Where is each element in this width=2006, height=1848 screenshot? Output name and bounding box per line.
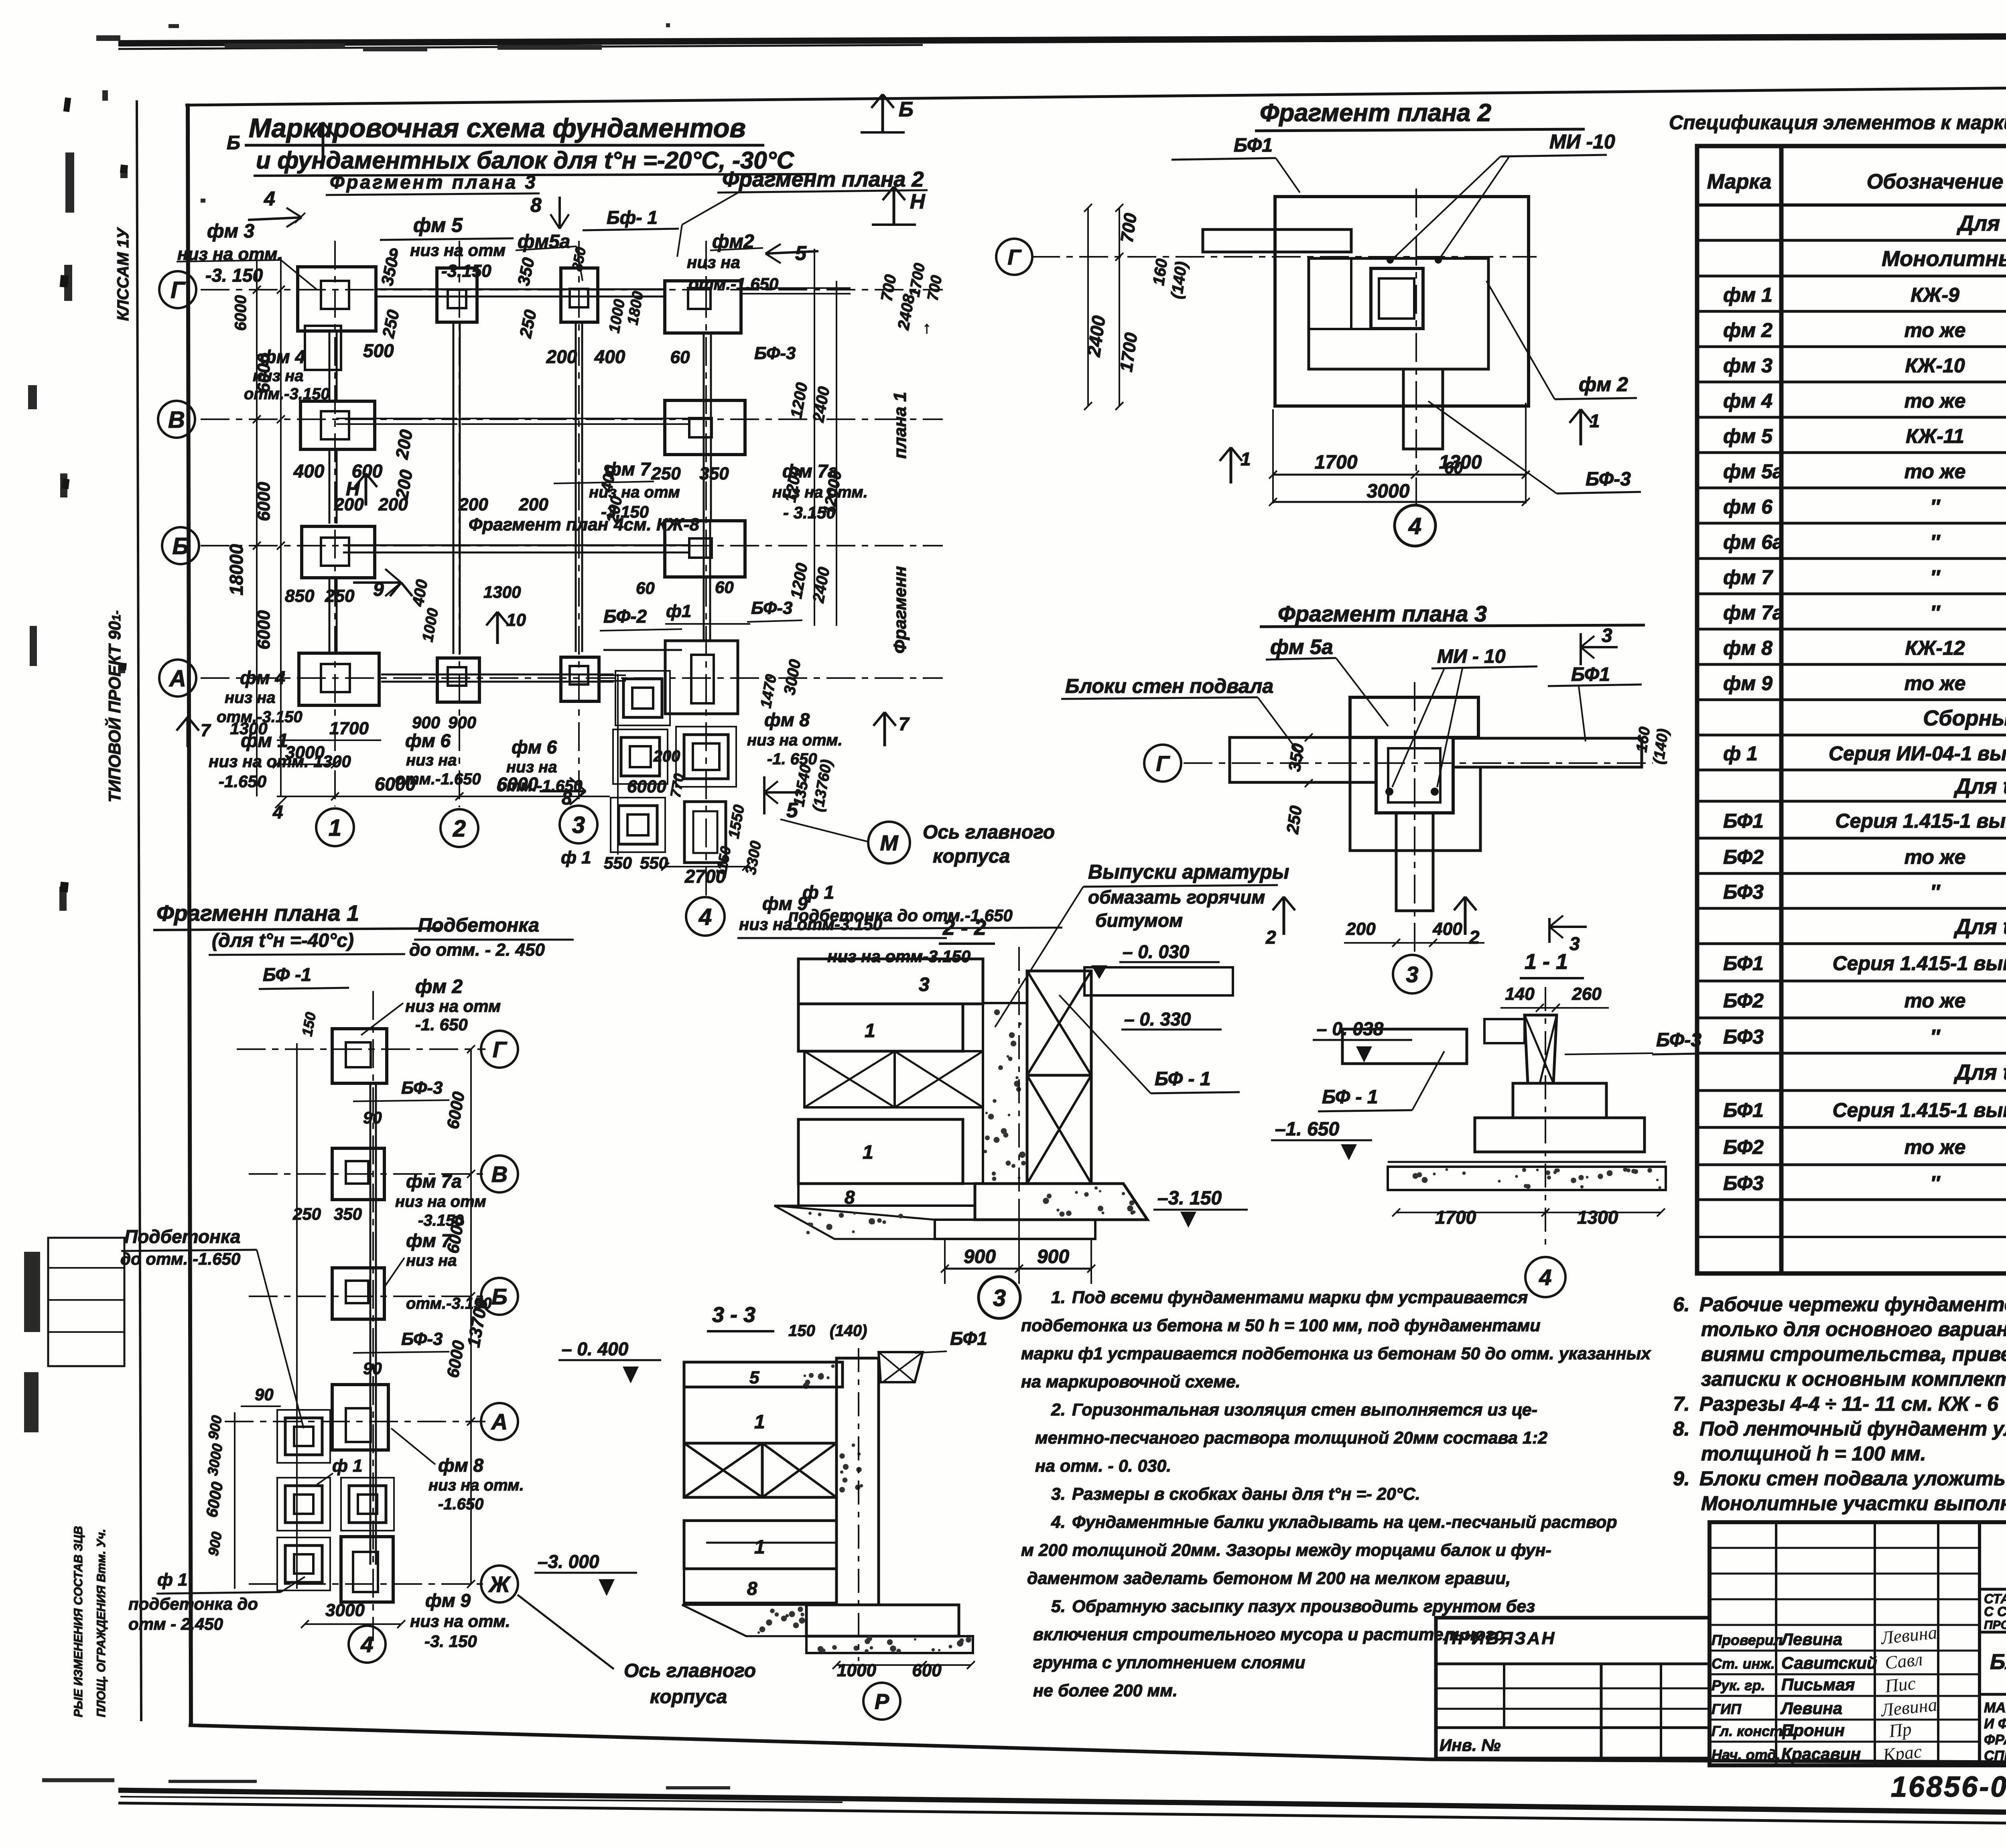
- fp1 ф1 square 4: [349, 1486, 386, 1523]
- svg-text:Монолитные участки выполня: Монолитные участки выполняются из бетона…: [1701, 1492, 2006, 1515]
- svg-text:350: 350: [1285, 742, 1307, 773]
- svg-text:Г: Г: [493, 1037, 508, 1062]
- svg-text:ПРИВЯЗАН: ПРИВЯЗАН: [1444, 1629, 1556, 1648]
- svg-text:Марка: Марка: [1707, 170, 1772, 193]
- svg-text:Серия 1.415-1 вып. 1: Серия 1.415-1 вып. 1: [1833, 952, 2006, 975]
- cluster beam БФ-2 line: [603, 649, 682, 651]
- svg-text:1: 1: [1590, 410, 1600, 431]
- svg-text:БФ1: БФ1: [1571, 664, 1610, 685]
- svg-text:3: 3: [919, 974, 930, 995]
- s11 bottom slab speckled: [1388, 1167, 1666, 1190]
- axis circle Б: [162, 527, 199, 564]
- svg-text:фм 7: фм 7: [1723, 566, 1773, 589]
- svg-text:отм.-1.650: отм.-1.650: [395, 770, 481, 788]
- svg-text:ТИПОВОЙ ПРОЕКТ 901-: ТИПОВОЙ ПРОЕКТ 901-: [104, 610, 124, 802]
- axis circle 1: [316, 808, 354, 846]
- svg-text:Для t°н =-30°C: Для t°н =-30°C: [1957, 211, 2006, 236]
- s11 circle 4: [1525, 1257, 1565, 1297]
- fp2 dim vertical 2400 1700 700: [1087, 208, 1089, 406]
- cluster rect E: [684, 802, 726, 863]
- svg-text:КЛССАМ 1У: КЛССАМ 1У: [114, 227, 132, 321]
- spec row фм 9: [1697, 672, 2006, 700]
- svg-text:″: ″: [1930, 881, 1941, 903]
- svg-text:″: ″: [1930, 1172, 1941, 1194]
- axis line 2 vertical: [459, 241, 460, 807]
- svg-text:8: 8: [845, 1187, 855, 1208]
- svg-text:низ на: низ на: [687, 253, 740, 272]
- left margin small boxes: [48, 1238, 124, 1366]
- svg-text:2: 2: [453, 816, 466, 842]
- s11 step 1: [1513, 1083, 1606, 1118]
- svg-text:БФ1: БФ1: [1723, 810, 1764, 832]
- svg-text:Письмая: Письмая: [1781, 1675, 1855, 1694]
- svg-text:фм 9: фм 9: [425, 1590, 471, 1611]
- svg-text:виями строительства, приведе: виями строительства, приведенными в разд…: [1701, 1343, 2006, 1365]
- s33 top bar 5: [684, 1362, 843, 1387]
- svg-text:Крас: Крас: [1882, 1741, 1923, 1765]
- svg-text:Разрезы 4-4 ÷ 11- 11 см. КЖ: Разрезы 4-4 ÷ 11- 11 см. КЖ - 6: [1699, 1393, 1999, 1415]
- svg-text:Рабочие чертежи фундаментов: Рабочие чертежи фундаментов под колонны …: [1699, 1293, 2006, 1316]
- svg-text:Б: Б: [491, 1284, 508, 1309]
- fp1 circle В: [481, 1156, 518, 1192]
- spec row БФ3: [1697, 1172, 2006, 1200]
- svg-text:Н: Н: [910, 190, 926, 213]
- beam along В left part: [336, 423, 457, 425]
- svg-text:отм.-1.650: отм.-1.650: [688, 274, 778, 293]
- svg-text:низ на: низ на: [253, 367, 304, 385]
- svg-text:3: 3: [993, 1285, 1006, 1311]
- svg-text:-3.150: -3.150: [441, 261, 491, 281]
- svg-text:БФ1: БФ1: [1723, 952, 1764, 975]
- svg-text:7: 7: [899, 713, 910, 734]
- s33 wall vertical: [837, 1358, 879, 1605]
- fp1 circle А: [481, 1403, 518, 1440]
- svg-text:Фрагменн плана 1: Фрагменн плана 1: [156, 900, 359, 926]
- svg-text:фм 6а: фм 6а: [1723, 531, 1784, 553]
- svg-text:Б: Б: [899, 98, 914, 121]
- beam along Г: [375, 296, 666, 298]
- svg-text:фм 5: фм 5: [413, 214, 463, 236]
- fp2 mark 1 left: [1230, 447, 1232, 483]
- svg-text:битумом: битумом: [1095, 910, 1183, 931]
- svg-text:260: 260: [1572, 984, 1602, 1004]
- svg-text:900: 900: [1037, 1246, 1069, 1267]
- footing row Б axis4 фм7: [665, 521, 745, 577]
- svg-text:ФРАГМЕНТЫ ПЛАНА №1 ÷ №3.: ФРАГМЕНТЫ ПЛАНА №1 ÷ №3.: [1984, 1732, 2006, 1748]
- svg-text:фм 4: фм 4: [240, 667, 285, 688]
- spec row фм 1: [1697, 284, 2006, 311]
- spec table column lines: [1779, 146, 1784, 1273]
- frame top line: [185, 83, 2006, 105]
- svg-text:6000: 6000: [254, 482, 274, 521]
- svg-text:Б: Б: [227, 132, 240, 154]
- s33 footing: [806, 1605, 959, 1636]
- s22 center line: [1018, 947, 1020, 1268]
- svg-text:1700: 1700: [329, 719, 369, 738]
- s22 top slab 3: [798, 959, 983, 1004]
- svg-text:ф 1: ф 1: [157, 1570, 188, 1590]
- s22 dims 900 900: [945, 1268, 1091, 1270]
- spec row БФ3: [1697, 1026, 2006, 1053]
- svg-text:Ось главного: Ось главного: [923, 822, 1055, 843]
- svg-text:– 0. 030: – 0. 030: [1123, 941, 1190, 962]
- svg-text:-3.150: -3.150: [418, 1212, 463, 1229]
- fp3 mark 2 left: [1283, 897, 1285, 935]
- svg-text:до отм. - 2. 450: до отм. - 2. 450: [409, 940, 545, 960]
- fp2 mark 1 right: [1580, 409, 1582, 445]
- svg-text:ПЛОЩ. ОГРАЖДЕНИЯ Втм. Уч.: ПЛОЩ. ОГРАЖДЕНИЯ Втм. Уч.: [95, 1529, 108, 1717]
- svg-text:1.: 1.: [1051, 1288, 1066, 1307]
- svg-text:Фрагмент план: Фрагмент план: [469, 515, 608, 534]
- s33 xbox row: [684, 1443, 762, 1497]
- svg-text:А: А: [169, 666, 186, 692]
- svg-text:низ на: низ на: [225, 689, 276, 707]
- svg-text:Обратную засыпку пазух пр: Обратную засыпку пазух производить грунт…: [1072, 1597, 1535, 1616]
- svg-text:Монолитные конструкции.: Монолитные конструкции.: [1882, 247, 2006, 271]
- svg-text:БФ-3: БФ-3: [1586, 469, 1631, 490]
- svg-text:4: 4: [1539, 1265, 1551, 1290]
- svg-text:Блок контактной камеры.: Блок контактной камеры.: [1990, 1650, 2006, 1674]
- svg-text:1000: 1000: [837, 1661, 876, 1680]
- svg-text:Под ленточный фундамент ул: Под ленточный фундамент уложить песчаную…: [1699, 1417, 2006, 1440]
- s33 bottom slab: [806, 1636, 973, 1653]
- svg-text:(для t°н =-40°с): (для t°н =-40°с): [212, 930, 354, 951]
- spec table outer: [1697, 146, 2006, 1273]
- svg-text:низ на: низ на: [406, 1252, 457, 1269]
- axis circle 2: [441, 809, 478, 847]
- svg-text:8: 8: [747, 1578, 757, 1599]
- s22 circle 3: [979, 1277, 1020, 1318]
- svg-text:Г: Г: [1007, 245, 1022, 269]
- svg-text:60: 60: [636, 579, 655, 597]
- s11 center axis: [1545, 987, 1546, 1252]
- svg-text:КЖ-12: КЖ-12: [1905, 637, 1965, 659]
- svg-text:то же: то же: [1904, 672, 1966, 695]
- svg-text:– 0. 400: – 0. 400: [562, 1338, 629, 1359]
- svg-text:БФ-3: БФ-3: [754, 343, 796, 363]
- plan mark Б right: [861, 131, 905, 134]
- svg-text:Левина: Левина: [1780, 1699, 1842, 1718]
- svg-text:1: 1: [863, 1142, 873, 1163]
- axis line 3 vertical: [578, 241, 580, 806]
- cluster ф1 square D: [619, 806, 657, 844]
- svg-text:низ на отм. 1300: низ на отм. 1300: [209, 752, 351, 771]
- svg-text:Для t°н =- 30°C: Для t°н =- 30°C: [1953, 915, 2006, 939]
- footing row В axis1 фм4: [300, 401, 375, 449]
- svg-text:200: 200: [653, 747, 680, 765]
- signature table: [1710, 1522, 1980, 1765]
- svg-text:ф 1: ф 1: [1723, 742, 1758, 765]
- fp3 dots МН-10: [1385, 788, 1393, 796]
- svg-text:Серия ИИ-04-1 вып. 7: Серия ИИ-04-1 вып. 7: [1829, 742, 2006, 765]
- s22 bottom slabs: [935, 1220, 1095, 1239]
- frame left border: [188, 104, 191, 1725]
- cluster ф1 square B: [621, 737, 660, 776]
- svg-text:плана 1: плана 1: [890, 392, 910, 459]
- spec row фм 5: [1697, 425, 2006, 453]
- svg-text:1300: 1300: [1577, 1207, 1618, 1228]
- svg-text:Проверил: Проверил: [1712, 1632, 1783, 1648]
- svg-text:Спецификация элементов к марки: Спецификация элементов к маркировочной с…: [1669, 112, 2006, 134]
- svg-text:1 - 1: 1 - 1: [1525, 950, 1568, 974]
- svg-text:Размеры в скобках даны дл: Размеры в скобках даны для t°н =- 20°С.: [1072, 1484, 1420, 1504]
- cluster mark 7 right: [883, 712, 886, 746]
- svg-text:низ на отм.: низ на отм.: [428, 1476, 524, 1494]
- svg-text:отм - 2.450: отм - 2.450: [128, 1614, 223, 1633]
- svg-text:фм 8: фм 8: [438, 1455, 484, 1476]
- svg-text:фм 6: фм 6: [1723, 496, 1773, 518]
- svg-text:1300: 1300: [483, 583, 521, 601]
- fp3 mark 2 right: [1464, 897, 1467, 935]
- svg-text:низ на отм-3.150: низ на отм-3.150: [827, 947, 971, 966]
- svg-text:С СОДЕРЖАНИЕМ ВЗВЕШЕННЫХ ВЕЩ: С СОДЕРЖАНИЕМ ВЗВЕШЕННЫХ ВЕЩЕСТВ ДО 2500…: [1984, 1604, 2006, 1619]
- svg-text:КЖ-9: КЖ-9: [1911, 284, 1959, 306]
- svg-text:250: 250: [1283, 804, 1305, 835]
- svg-text:фм 2: фм 2: [415, 976, 463, 997]
- svg-text:Фрагмент плана 3: Фрагмент плана 3: [1278, 601, 1487, 626]
- svg-text:фм 6: фм 6: [405, 730, 451, 751]
- svg-text:РЫЕ ИЗМЕНЕНИЯ СОСТАВ ЗЦВ: РЫЕ ИЗМЕНЕНИЯ СОСТАВ ЗЦВ: [72, 1526, 85, 1717]
- footing row Г axis4 фм2: [665, 281, 741, 333]
- svg-text:фм 8: фм 8: [764, 709, 810, 730]
- svg-text:″: ″: [1930, 601, 1941, 624]
- svg-text:3: 3: [572, 812, 585, 838]
- fp3 top block: [1350, 697, 1478, 737]
- svg-text:200: 200: [518, 495, 548, 514]
- svg-text:2: 2: [1265, 927, 1276, 948]
- s33 center line: [858, 1348, 859, 1661]
- svg-text:–3. 000: –3. 000: [538, 1551, 599, 1572]
- svg-text:6000: 6000: [627, 777, 666, 796]
- svg-text:4: 4: [698, 904, 712, 930]
- spec section row: [1697, 911, 2006, 944]
- svg-text:Подбетонка: Подбетонка: [124, 1226, 240, 1247]
- svg-text:записки к основным комплек: записки к основным комплектам АР, КЖ,: [1701, 1368, 2006, 1390]
- spec section row: [1697, 207, 2006, 240]
- spec row фм 6: [1697, 496, 2006, 523]
- svg-text:500: 500: [363, 340, 394, 361]
- cluster ф1 square A: [623, 679, 662, 717]
- svg-text:отм.-3.150: отм.-3.150: [406, 1295, 492, 1312]
- wall strip axis1 В-Б: [329, 449, 331, 524]
- fp2 vertical bar down: [1403, 369, 1443, 449]
- svg-text:низ на отм.: низ на отм.: [747, 731, 843, 749]
- fp1 footing Ж фм9: [341, 1537, 393, 1602]
- svg-text:фм 4: фм 4: [1723, 390, 1773, 412]
- fp3 axis Г: [1184, 762, 1653, 764]
- svg-text:850: 850: [285, 586, 315, 606]
- svg-text:низ на отм: низ на отм: [395, 1193, 486, 1210]
- s22 wall 1 lower: [798, 1119, 963, 1184]
- svg-text:2: 2: [1469, 927, 1480, 948]
- svg-text:1700: 1700: [1435, 1207, 1476, 1228]
- svg-text:″: ″: [1930, 1026, 1941, 1048]
- svg-text:5.: 5.: [1051, 1597, 1066, 1616]
- svg-text:фм 7а: фм 7а: [406, 1171, 462, 1192]
- svg-text:2.: 2.: [1051, 1400, 1066, 1420]
- svg-text:КЖ-10: КЖ-10: [1905, 354, 1965, 377]
- svg-text:3: 3: [1569, 933, 1580, 954]
- svg-text:Рук. гр.: Рук. гр.: [1712, 1677, 1765, 1694]
- svg-text:4: 4: [1408, 513, 1421, 539]
- svg-text:400: 400: [1432, 919, 1462, 939]
- svg-text:200: 200: [458, 495, 488, 514]
- svg-text:250: 250: [292, 1204, 321, 1223]
- svg-text:фм 3: фм 3: [1723, 354, 1773, 377]
- svg-text:10: 10: [506, 610, 526, 630]
- spec row фм 7а: [1697, 601, 2006, 629]
- svg-text:1300: 1300: [1439, 452, 1482, 473]
- svg-text:1: 1: [1241, 449, 1251, 469]
- fp1 footing В фм7а: [332, 1148, 384, 1200]
- svg-text:БФ-3: БФ-3: [401, 1078, 443, 1098]
- spec row БФ3: [1697, 881, 2006, 908]
- cluster dim lines: [617, 674, 619, 855]
- svg-text:фм 7а: фм 7а: [1723, 601, 1784, 624]
- left dimension chain lines: [256, 257, 258, 796]
- svg-text:на маркировочной схеме.: на маркировочной схеме.: [1021, 1372, 1241, 1391]
- svg-text:-1. 650: -1. 650: [415, 1015, 468, 1034]
- plan mark 10: [496, 612, 499, 644]
- footing row А axis3 фм6а: [561, 657, 599, 701]
- svg-text:БФ1: БФ1: [1723, 1099, 1764, 1121]
- svg-text:ментно-песчаного раствора т: ментно-песчаного раствора толщиной 20мм …: [1035, 1428, 1547, 1448]
- svg-text:фм 1: фм 1: [1723, 284, 1773, 306]
- svg-text:200: 200: [378, 495, 408, 514]
- svg-text:4: 4: [360, 1632, 373, 1657]
- label Ось главного корпуса (center): [868, 822, 910, 863]
- svg-text:7: 7: [201, 721, 211, 740]
- svg-text:БФ -1: БФ -1: [263, 964, 311, 985]
- axis line А: [201, 677, 943, 679]
- fp1 axis vertical: [372, 991, 374, 1641]
- svg-text:350: 350: [699, 464, 729, 483]
- svg-text:250: 250: [325, 586, 355, 606]
- fp2 big inner rect фм2: [1309, 258, 1488, 369]
- spec table header row: [1697, 203, 2006, 207]
- svg-text:МИ - 10: МИ - 10: [1437, 646, 1506, 667]
- fp3 left beam: [1230, 737, 1376, 782]
- svg-text:2700: 2700: [684, 866, 726, 887]
- fp2 circle Г: [996, 239, 1032, 275]
- beam stub right of фм2: [740, 293, 851, 294]
- svg-text:БФ3: БФ3: [1723, 1026, 1764, 1048]
- svg-text:Фрагменн: Фрагменн: [890, 566, 910, 654]
- footing row Г axis1 фм3: [298, 267, 376, 331]
- svg-text:400: 400: [594, 346, 625, 367]
- svg-text:1700: 1700: [1315, 452, 1358, 473]
- svg-text:Под всеми фундаментами мар: Под всеми фундаментами марки фм устраива…: [1072, 1288, 1528, 1307]
- footing row А axis1 фм1: [299, 653, 379, 705]
- svg-text:МАРКИРОВОЧНАЯ СХЕМА ФУНДАМЕНТ: МАРКИРОВОЧНАЯ СХЕМА ФУНДАМЕНТОВ: [1984, 1700, 2006, 1716]
- svg-text:БФ3: БФ3: [1723, 1172, 1764, 1194]
- svg-text:А: А: [491, 1409, 508, 1434]
- svg-text:БФ2: БФ2: [1723, 1136, 1764, 1158]
- svg-text:до отм. -1.650: до отм. -1.650: [120, 1249, 240, 1268]
- fp1 axis horizontal Б: [249, 1296, 485, 1297]
- spec row фм 3: [1697, 354, 2006, 382]
- wall strip axis3: [575, 322, 577, 652]
- fp1 ф1 square 2: [285, 1486, 322, 1523]
- svg-text:90: 90: [255, 1385, 274, 1404]
- svg-text:БФ2: БФ2: [1723, 846, 1764, 868]
- svg-text:Сборные элементы: Сборные элементы: [1923, 706, 2006, 730]
- svg-text:4см. КЖ-8: 4см. КЖ-8: [613, 515, 699, 534]
- spec row ф 1: [1697, 742, 2006, 770]
- fp2 beam top-left: [1203, 229, 1351, 252]
- svg-text:1: 1: [754, 1411, 765, 1433]
- sheet top edge heavy line: [118, 35, 2006, 49]
- svg-text:90: 90: [363, 1108, 382, 1127]
- svg-text:БФ - 1: БФ - 1: [1322, 1086, 1378, 1108]
- svg-text:9.: 9.: [1673, 1467, 1690, 1490]
- wall strip axis4: [703, 333, 705, 520]
- svg-text:БФ2: БФ2: [1723, 989, 1764, 1012]
- s33 block 1: [684, 1387, 837, 1443]
- svg-text:подбетонка из бетона м 50: подбетонка из бетона м 50 h = 100 мм, по…: [1021, 1316, 1541, 1335]
- s11 upper blocks: [1484, 1019, 1525, 1043]
- fp2 dots МН-10: [1387, 256, 1394, 264]
- s33 bottom bar 8: [684, 1569, 837, 1603]
- footing row Г axis2 фм5: [437, 268, 477, 322]
- svg-text:Г: Г: [1156, 751, 1170, 776]
- svg-text:900: 900: [412, 713, 440, 732]
- fp3 mark 3 right: [1548, 918, 1551, 943]
- svg-text:200: 200: [546, 346, 577, 367]
- bottom-right cluster: big rect фм8: [665, 641, 738, 714]
- s11 step 2: [1475, 1118, 1645, 1152]
- svg-text:Выпуски арматуры: Выпуски арматуры: [1088, 861, 1289, 883]
- fp3 lower bar: [1396, 813, 1433, 911]
- title block outer: [1710, 1522, 2006, 1765]
- svg-text:350: 350: [334, 1204, 362, 1223]
- svg-text:60: 60: [670, 347, 690, 367]
- svg-text:то же: то же: [1904, 390, 1966, 412]
- svg-text:и фундаментных балок для t: и фундаментных балок для t°н =-20°C, -30…: [256, 147, 795, 174]
- spec section row: [1697, 702, 2006, 735]
- svg-text:то же: то же: [1904, 846, 1966, 868]
- spec row фм 8: [1697, 637, 2006, 664]
- svg-text:Для t°н =- 20°C: Для t°н =- 20°C: [1953, 774, 2006, 798]
- svg-text:160: 160: [1633, 726, 1653, 753]
- svg-text:БФ-3: БФ-3: [401, 1329, 443, 1349]
- svg-text:фм 6: фм 6: [512, 737, 557, 757]
- svg-text:фм 3: фм 3: [207, 221, 254, 242]
- svg-text:низ на: низ на: [506, 758, 557, 776]
- svg-text:600: 600: [912, 1661, 942, 1680]
- svg-text:3.: 3.: [1051, 1484, 1066, 1504]
- footing row Б axis1 фм4 second: [302, 526, 375, 578]
- svg-text:БФ1: БФ1: [950, 1328, 987, 1349]
- right vertical dim line: [814, 249, 815, 626]
- beam А to cluster: [599, 680, 626, 682]
- s11 beam cross hatch: [1525, 1015, 1557, 1083]
- svg-text:БФ - 1: БФ - 1: [1155, 1068, 1211, 1090]
- svg-text:550: 550: [604, 853, 632, 872]
- spec empty rows: [1697, 1236, 2006, 1238]
- svg-text:БФ-2: БФ-2: [603, 606, 647, 627]
- svg-text:6.: 6.: [1673, 1293, 1690, 1316]
- cluster wall vertical: [703, 522, 705, 642]
- svg-text:-1.650: -1.650: [438, 1495, 483, 1513]
- spec section row: [1697, 243, 2006, 276]
- spec row БФ2: [1697, 1136, 2006, 1165]
- fp1 axis horizontal В: [249, 1173, 485, 1175]
- svg-text:– 0. 330: – 0. 330: [1124, 1009, 1191, 1030]
- svg-text:И ФУНДАМЕНТНЫХ БАЛОК.: И ФУНДАМЕНТНЫХ БАЛОК.: [1984, 1716, 2006, 1732]
- svg-text:150: 150: [788, 1322, 815, 1340]
- svg-text:Бф- 1: Бф- 1: [607, 207, 658, 228]
